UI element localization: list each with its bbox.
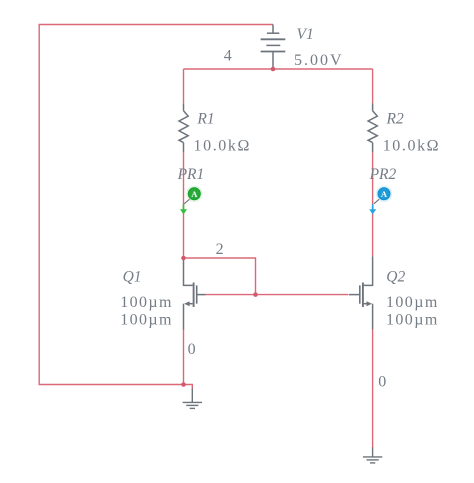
- svg-text:10.0kΩ: 10.0kΩ: [383, 138, 441, 155]
- svg-text:5.00V: 5.00V: [294, 52, 344, 69]
- svg-text:A: A: [191, 189, 198, 199]
- battery V1: [261, 25, 286, 68]
- ground (right): [363, 447, 382, 463]
- resistor R2: [368, 103, 377, 152]
- junction: battery bottom node 4: [271, 67, 276, 72]
- wire: node 4 drop to R2: [372, 69, 374, 103]
- transistor Q2 (NMOS, mirrored): [349, 256, 373, 329]
- svg-text:Q2: Q2: [386, 268, 405, 285]
- svg-text:Q1: Q1: [123, 268, 142, 285]
- svg-text:100µm: 100µm: [386, 311, 439, 328]
- svg-text:2: 2: [216, 241, 224, 258]
- svg-text:0: 0: [378, 374, 386, 391]
- svg-text:10.0kΩ: 10.0kΩ: [194, 138, 252, 155]
- transistor Q1 (NMOS): [184, 258, 206, 330]
- svg-text:100µm: 100µm: [120, 294, 173, 311]
- svg-text:R1: R1: [196, 111, 214, 128]
- wire: node 4 drop to R1: [183, 69, 185, 103]
- svg-text:V1: V1: [297, 26, 314, 43]
- ground (left): [183, 389, 202, 409]
- wire: ground junction stub to left ground symbol: [184, 385, 193, 390]
- probe PR2 (blue ammeter): [369, 186, 392, 215]
- junction: node 2 gate bus: [253, 292, 258, 297]
- wire: R1 bottom to Q1 drain (through PR1): [183, 152, 185, 258]
- svg-text:A: A: [381, 189, 388, 199]
- wire: ground return loop from battery top, left edge and bottom: [39, 25, 273, 385]
- svg-text:R2: R2: [386, 111, 404, 128]
- svg-text:4: 4: [224, 47, 232, 64]
- wire: Q2 source down to right ground: [372, 330, 374, 449]
- wire: node 4 horizontal bus under battery: [184, 68, 373, 70]
- wire: node 2 from Q1 drain junction right and down: [184, 258, 256, 295]
- junction: Q1 drain / node 2 tap: [181, 256, 186, 261]
- svg-text:PR2: PR2: [369, 166, 397, 183]
- wire: R2 bottom to Q2 drain (through PR2): [372, 152, 374, 256]
- svg-text:100µm: 100µm: [120, 311, 173, 328]
- resistor R1: [179, 103, 188, 152]
- junction: ground node 0 left: [181, 382, 186, 387]
- wire: Q1 source to ground junction: [183, 329, 185, 385]
- probe PR1 (green ammeter): [180, 186, 203, 215]
- wire: node 2 horizontal gate bus: [205, 294, 349, 296]
- svg-text:100µm: 100µm: [386, 294, 439, 311]
- svg-text:0: 0: [188, 341, 196, 358]
- svg-text:PR1: PR1: [177, 166, 205, 183]
- Q2 source arrow: [367, 301, 373, 306]
- Q1 source arrow: [184, 301, 190, 306]
